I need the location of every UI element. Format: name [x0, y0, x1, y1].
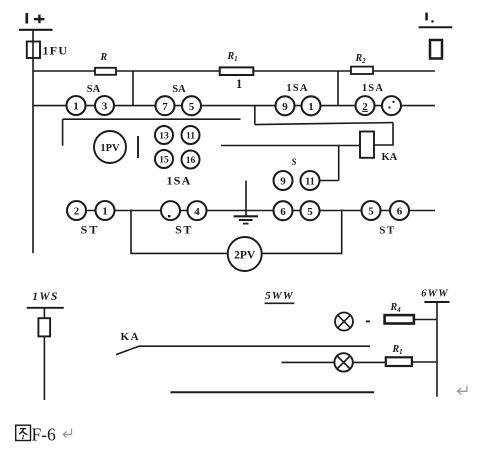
resistor R1 (lamp): [386, 357, 412, 366]
wire junction stub x133: [132, 71, 134, 106]
terminal circle 2 (1SA): [356, 96, 375, 115]
wire R1 to rail: [412, 361, 437, 363]
terminal circle 7 (SA): [156, 96, 175, 115]
ground bar 2: [239, 219, 253, 221]
wire 2PV loop right: [262, 210, 342, 254]
L+ terminal bar: [19, 29, 53, 31]
wire B (KA left lead): [221, 145, 360, 147]
ground stem: [245, 181, 247, 217]
svg-text:9: 9: [280, 176, 286, 188]
bar right of 1PV: [137, 136, 139, 158]
terminal circle 5 (ST): [362, 201, 381, 220]
svg-text:3: 3: [102, 101, 108, 113]
svg-text:6: 6: [397, 206, 403, 218]
svg-text:13: 13: [159, 132, 169, 142]
terminal circle 13 (1SA group): [155, 126, 173, 144]
svg-text:ST: ST: [379, 225, 395, 237]
svg-text:KA: KA: [121, 331, 141, 343]
wire top rail y71: [33, 70, 435, 72]
svg-text:5: 5: [307, 206, 313, 218]
svg-text:SA: SA: [87, 84, 101, 95]
relay coil KA: [360, 132, 374, 158]
wire stub x338.7 down to S contacts: [338, 146, 340, 181]
svg-text:KA: KA: [382, 152, 398, 163]
wire from contact 11 to stub: [320, 180, 339, 182]
return mark (drawn): [457, 386, 467, 395]
svg-text:1: 1: [236, 77, 242, 91]
wire dash: [366, 320, 370, 322]
terminal circle 9 (S): [274, 171, 293, 190]
node L+ label: [26, 13, 45, 24]
svg-text:9: 9: [282, 101, 288, 113]
1WS terminal bar: [27, 307, 64, 309]
svg-text:1WS: 1WS: [32, 291, 59, 303]
svg-text:11: 11: [305, 177, 314, 188]
wire KA contact: [139, 345, 370, 347]
svg-text:11: 11: [186, 132, 195, 142]
svg-text:1PV: 1PV: [100, 143, 120, 154]
terminal circle 2 (ST): [67, 201, 86, 220]
svg-text:SA: SA: [172, 84, 186, 95]
wire left vertical rail: [32, 30, 34, 253]
svg-text:2: 2: [74, 206, 80, 218]
wire R4 to rail: [414, 319, 437, 321]
svg-text:ST: ST: [175, 223, 193, 237]
svg-text:7: 7: [162, 101, 168, 113]
terminal circle 16 (1SA group): [182, 151, 200, 169]
svg-text:5: 5: [189, 101, 195, 113]
terminal circle 3 (SA): [95, 96, 114, 115]
svg-text:ST: ST: [81, 223, 100, 237]
terminal circle 15 (1SA group): [155, 150, 173, 168]
svg-text:1: 1: [102, 206, 108, 218]
terminal circle 1 (1SA): [302, 96, 321, 115]
resistor R: [95, 68, 116, 75]
wire bottom dead line: [171, 391, 375, 393]
underline 5WW: [265, 302, 295, 304]
svg-text:16: 16: [186, 156, 196, 166]
terminal circle 1 (ST): [96, 201, 115, 220]
svg-text:1FU: 1FU: [43, 44, 69, 58]
fuse 2FU: [430, 40, 442, 59]
resistor R4: [385, 315, 414, 323]
6WW terminal bar: [424, 301, 449, 303]
wire junction stub x338: [337, 71, 339, 106]
L- terminal bar: [419, 26, 453, 28]
svg-text:2PV: 2PV: [234, 250, 256, 262]
meter 1PV: [94, 131, 126, 163]
wire A left segment: [63, 118, 241, 120]
svg-text:S: S: [291, 157, 296, 167]
switch blade KA: [116, 346, 139, 354]
svg-text:1SA: 1SA: [286, 83, 308, 94]
terminal circle blank (1SA): [382, 96, 401, 115]
svg-text:5WW: 5WW: [265, 290, 294, 302]
terminal circle 6 (ST): [390, 201, 409, 220]
terminal circle 4 (ST): [188, 201, 207, 220]
wire A right segment: [255, 123, 393, 125]
svg-text:1SA: 1SA: [167, 174, 192, 188]
wire stub right end down to KA: [374, 123, 393, 145]
terminal circle 1 (SA): [67, 96, 86, 115]
terminal circle 11 (S): [301, 171, 320, 190]
terminal circle 9 (1SA): [276, 96, 295, 115]
fuse (1WS branch): [38, 318, 50, 336]
return mark 2 (drawn): [63, 429, 71, 438]
svg-text:1: 1: [308, 101, 314, 113]
terminal circle 5: [301, 201, 320, 220]
svg-text:1SA: 1SA: [362, 83, 384, 94]
terminal circle 3 (ST): [161, 201, 180, 220]
terminal circle 5 (SA): [182, 96, 201, 115]
ground bar 3: [243, 223, 249, 225]
label L-: [425, 13, 433, 23]
lamp HL1: [335, 313, 353, 331]
svg-text:6: 6: [280, 206, 286, 218]
wire ST row: [66, 210, 435, 212]
wire 1WS down: [43, 308, 45, 400]
wire stub at left end of wire A: [62, 119, 64, 146]
lamp HL2: [334, 353, 352, 371]
wire stub x255 junction from row1: [254, 106, 256, 125]
wire lamp2 left: [282, 361, 335, 363]
ground bar 1: [234, 215, 259, 217]
fuse 1FU: [27, 42, 40, 59]
svg-text:4: 4: [194, 206, 200, 218]
svg-text:2: 2: [362, 101, 368, 113]
resistor R2: [351, 67, 373, 74]
caption 图 glyph (drawn): [16, 425, 31, 440]
wire 6WW rail: [436, 302, 438, 397]
wire row1 horizontal: [33, 105, 435, 107]
resistor R1: [220, 67, 254, 75]
meter 2PV: [228, 237, 262, 271]
svg-text:1: 1: [73, 101, 79, 113]
svg-text:5: 5: [368, 206, 374, 218]
terminal circle 6: [274, 201, 293, 220]
svg-text:6WW: 6WW: [421, 289, 449, 300]
svg-text:R: R: [100, 52, 108, 63]
svg-text:F-6: F-6: [32, 425, 57, 445]
svg-text:15: 15: [159, 156, 169, 166]
wire lamp2 to R1: [353, 361, 386, 363]
terminal circle 11 (1SA group): [182, 126, 200, 144]
wire 2PV loop left: [131, 210, 228, 254]
